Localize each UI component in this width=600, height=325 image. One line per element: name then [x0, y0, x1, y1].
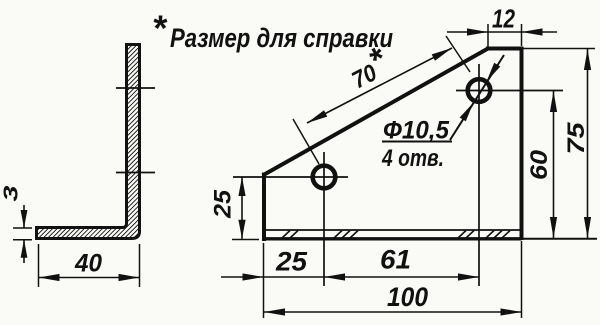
lower hole horizontal centerline — [233, 176, 348, 178]
upper hole vertical centerline — [478, 64, 480, 286]
dimension 25 left line — [241, 177, 243, 239]
dimension 75 line — [587, 49, 589, 239]
row2 dimension line (100) — [264, 311, 522, 313]
dimension 3 line and arrows — [23, 205, 25, 228]
leader arrow lower — [460, 103, 474, 122]
hole diameter leader line — [450, 55, 504, 140]
dimension 60 arrows — [550, 91, 557, 112]
svg-text:*: * — [152, 8, 168, 49]
side view hole centerline tick (lower) — [116, 172, 155, 174]
dimension 70 line — [307, 48, 452, 123]
dimension 70 extension line left — [293, 119, 319, 164]
hole (upper) — [468, 79, 491, 102]
dimension 12 line — [447, 31, 557, 33]
side view hole centerline tick (upper) — [116, 87, 155, 89]
dimension 40 line — [39, 277, 140, 279]
dimension 40 arrows — [39, 274, 60, 281]
plate slanted edge — [263, 49, 489, 176]
svg-text:4 отв.: 4 отв. — [381, 145, 444, 172]
svg-text:40: 40 — [74, 250, 102, 278]
61 left arrow — [324, 273, 345, 280]
100 right arrow — [501, 308, 522, 315]
upper hole horizontal centerline — [456, 90, 563, 92]
bottom extension line (flange bottom, right) — [522, 238, 598, 240]
dimension 12 extension lines — [487, 24, 489, 47]
dimension 70 arrows — [307, 110, 327, 123]
dimension 40 extension lines — [38, 244, 40, 287]
row1 25 outside arrow — [243, 273, 264, 280]
svg-text:25: 25 — [210, 189, 237, 219]
plate bottom flange top line — [264, 229, 522, 231]
side view angle section outline with hatching — [37, 45, 140, 239]
plate top edge — [486, 47, 522, 51]
flange hatch dashes — [282, 231, 290, 239]
dimension 25 left extension lines — [232, 239, 259, 241]
100 left arrow — [264, 308, 285, 315]
dimension 70 extension line right — [446, 36, 470, 72]
dimension 25 left arrows — [238, 177, 245, 196]
61 right arrow — [458, 273, 479, 280]
dimension 75 arrows — [584, 49, 591, 70]
lower hole vertical centerline — [323, 152, 325, 286]
svg-text:Ф10,5: Ф10,5 — [383, 117, 450, 145]
hole (lower) — [313, 166, 336, 189]
dimension 12 arrows — [467, 28, 488, 35]
leader arrow upper — [487, 63, 501, 82]
right edge extension line down — [521, 241, 523, 318]
plate left edge — [262, 173, 266, 242]
plate bottom flange bottom line — [262, 237, 522, 240]
svg-text:60: 60 — [526, 149, 553, 180]
svg-text:Размер для справки: Размер для справки — [170, 23, 393, 53]
svg-text:3: 3 — [1, 186, 23, 202]
plate right edge — [520, 47, 524, 241]
row1 dimension line (25 and 61) — [221, 276, 479, 278]
svg-text:75: 75 — [563, 122, 590, 155]
dimension 75 top extension line — [523, 48, 595, 50]
svg-text:100: 100 — [387, 282, 428, 312]
svg-text:12: 12 — [492, 4, 515, 34]
fraction bar — [382, 141, 452, 143]
svg-text:61: 61 — [380, 245, 411, 275]
svg-text:25: 25 — [275, 247, 308, 277]
dimension 60 line — [553, 91, 555, 239]
left edge extension line down — [263, 243, 265, 318]
dimension 3 extension lines — [13, 227, 32, 229]
